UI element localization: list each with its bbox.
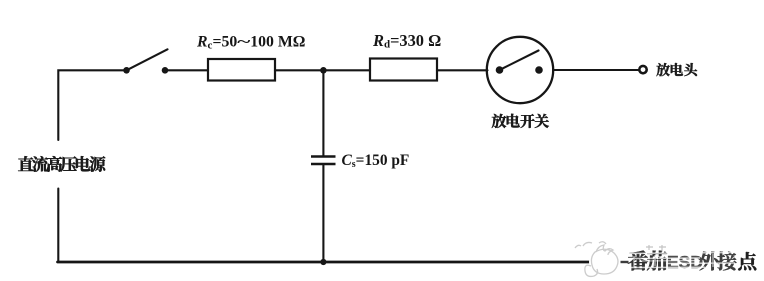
wire left vertical upper segment xyxy=(58,70,126,140)
resistor R_c body xyxy=(208,59,275,81)
wire discharge switch S2 to discharge head terminal xyxy=(553,69,639,71)
watermark erosion streaks xyxy=(626,253,736,269)
watermark dash on ground label xyxy=(621,261,629,263)
svg-text:Rd=330 Ω: Rd=330 Ω xyxy=(372,31,441,51)
wire switch S1 to resistor R_c xyxy=(165,69,208,71)
watermark faint leaf mark above text xyxy=(646,245,666,250)
wire bottom ground return xyxy=(58,261,593,264)
discharge head open terminal xyxy=(639,66,646,73)
switch S1 charging switch blade xyxy=(127,49,168,70)
label ground point char "点" xyxy=(738,252,756,271)
watermark text "番茄" xyxy=(628,251,667,271)
resistor R_d body xyxy=(370,59,437,81)
switch S2 left contact dot xyxy=(496,66,504,74)
capacitor C_s top plate xyxy=(311,155,336,158)
switch S1 right contact dot xyxy=(162,67,169,74)
switch S1 left contact dot xyxy=(123,67,130,74)
wire capacitor C_s lower branch xyxy=(322,165,324,262)
svg-text:ESD: ESD xyxy=(667,252,703,272)
label discharge head "放电头" xyxy=(656,63,697,76)
label ground point chars "外接" (under watermark) xyxy=(699,252,736,271)
switch S2 discharge switch circle body xyxy=(487,37,553,103)
svg-text:Cs=150 pF: Cs=150 pF xyxy=(342,152,410,170)
node B junction dot (C_s to ground wire) xyxy=(320,259,326,265)
wire capacitor C_s upper branch xyxy=(322,70,324,156)
wire left vertical lower segment xyxy=(57,189,59,262)
label DC high-voltage supply "直流高压电源" xyxy=(18,156,105,172)
switch S2 right contact dot xyxy=(535,66,543,74)
switch S2 blade xyxy=(500,51,539,71)
svg-text:Rc=50~100 MΩ: Rc=50~100 MΩ xyxy=(196,34,305,52)
watermark tomato logo xyxy=(575,242,623,279)
node A junction dot (R_c / R_d / C_s) xyxy=(320,67,327,74)
wire resistor R_d to discharge switch S2 xyxy=(437,69,488,71)
wire resistor R_c to resistor R_d xyxy=(275,69,370,71)
label discharge switch "放电开关" xyxy=(492,114,549,128)
capacitor C_s bottom plate xyxy=(311,163,336,166)
